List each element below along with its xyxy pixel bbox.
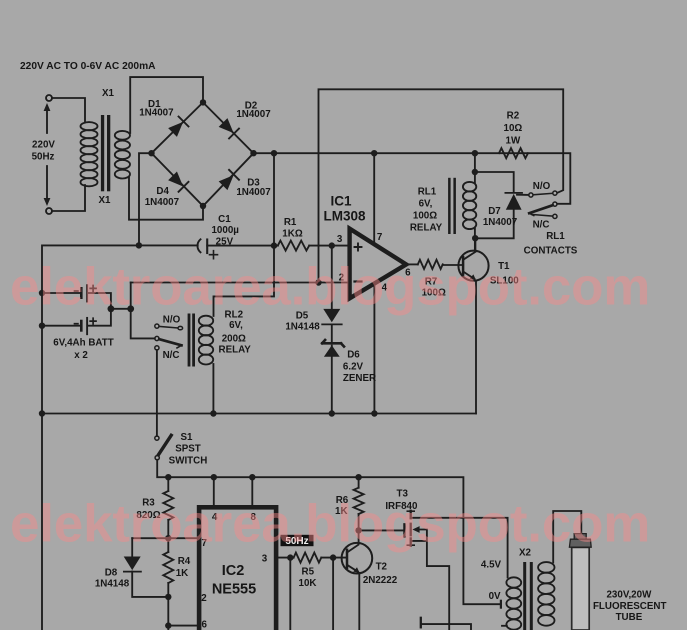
relay RL1 core xyxy=(448,178,456,234)
mains terminal top xyxy=(46,95,52,101)
svg-text:6V,: 6V, xyxy=(229,320,243,331)
svg-text:N/C: N/C xyxy=(533,219,550,230)
relay RL2 core xyxy=(188,314,195,367)
svg-text:N/C: N/C xyxy=(163,350,180,361)
relay RL1 feed riser xyxy=(474,153,476,183)
svg-text:R2: R2 xyxy=(507,111,520,122)
wire N/C relay RL2 down to S1 xyxy=(156,350,158,436)
wire R6 node to T2 collector xyxy=(358,530,360,543)
svg-text:R1: R1 xyxy=(284,217,297,228)
battery B1 wires xyxy=(42,293,111,309)
T1 emitter wire xyxy=(475,281,477,414)
diode D1 xyxy=(168,117,189,138)
0V tap tick xyxy=(500,601,502,608)
negative rail wire xyxy=(42,245,198,630)
wire D7 cathode to N/O contact xyxy=(517,194,529,196)
wire mains bottom to primary xyxy=(52,185,85,211)
transformer X2 primary winding xyxy=(506,577,521,629)
wire mains top to primary xyxy=(52,98,85,123)
svg-text:x 2: x 2 xyxy=(74,350,88,361)
svg-text:6.2V: 6.2V xyxy=(343,362,364,373)
relay RL1 contact N/C xyxy=(553,214,557,218)
svg-text:1N4007: 1N4007 xyxy=(236,109,271,120)
wire bridge left node to negative rail xyxy=(139,153,152,245)
svg-text:1N4007: 1N4007 xyxy=(145,197,180,208)
svg-text:1000µ: 1000µ xyxy=(211,225,239,236)
svg-text:LM308: LM308 xyxy=(323,209,366,224)
pin 7 wire of 555 xyxy=(132,537,197,539)
mains terminal bottom xyxy=(46,208,52,214)
svg-text:0V: 0V xyxy=(489,591,501,602)
wire RL1 coil bottom to T1 collector node xyxy=(474,229,476,251)
transformer X1 secondary winding xyxy=(115,131,130,179)
V+ supply rail to 555 xyxy=(157,460,500,604)
wire below pin3 node xyxy=(289,558,291,630)
capacitor C1 xyxy=(197,239,217,258)
svg-text:2N2222: 2N2222 xyxy=(363,575,398,586)
svg-text:C1: C1 xyxy=(218,214,231,225)
wire +V node down to RL2 coil xyxy=(214,246,275,316)
svg-text:D4: D4 xyxy=(156,186,169,197)
wire secondary top to bridge top node xyxy=(130,77,203,133)
resistor R2 xyxy=(499,148,528,158)
diode D8 xyxy=(131,538,133,556)
svg-text:3: 3 xyxy=(337,234,343,245)
220V 50Hz arrows xyxy=(32,103,56,206)
svg-text:220V AC TO 0-6V AC 200mA: 220V AC TO 0-6V AC 200mA xyxy=(20,61,156,72)
bridge diamond wires xyxy=(152,102,254,206)
wire secondary bottom to bridge bottom node xyxy=(129,178,203,220)
wire pin2 junction down to pin6 xyxy=(168,597,197,630)
svg-text:S1: S1 xyxy=(181,432,194,443)
pin 7 wire xyxy=(373,153,375,244)
svg-text:10K: 10K xyxy=(299,578,317,589)
MOSFET T3 xyxy=(404,511,507,630)
svg-text:10Ω: 10Ω xyxy=(504,123,523,134)
diode D5 xyxy=(331,246,333,309)
svg-text:ZENER: ZENER xyxy=(343,373,376,384)
svg-text:T2: T2 xyxy=(376,562,388,573)
svg-text:1KΩ: 1KΩ xyxy=(282,228,303,239)
svg-text:R4: R4 xyxy=(178,556,191,567)
svg-text:230V,20W: 230V,20W xyxy=(606,590,652,601)
output pin 6 wire xyxy=(406,263,418,265)
svg-text:200Ω: 200Ω xyxy=(222,333,246,344)
pin 4 wire xyxy=(373,285,375,413)
relay RL2 coil xyxy=(199,316,213,365)
relay RL1 coil xyxy=(463,182,476,229)
svg-text:7: 7 xyxy=(377,232,383,243)
riser bridge+ down to C1/R1 node xyxy=(273,153,275,245)
capacitor plate cut off at bottom xyxy=(420,618,422,628)
transformer X2 core xyxy=(523,562,533,630)
svg-text:X1: X1 xyxy=(99,195,112,206)
svg-text:IC1: IC1 xyxy=(330,194,352,209)
transformer X1 core xyxy=(101,115,110,191)
resistor R7 xyxy=(418,260,443,269)
top rail from op-amp pin2 to N/O xyxy=(319,89,564,282)
diode D7 xyxy=(475,210,513,239)
T2 emitter wire xyxy=(358,573,360,630)
wire below base node xyxy=(332,558,334,630)
svg-text:D6: D6 xyxy=(347,350,360,361)
svg-text:D8: D8 xyxy=(105,568,118,579)
wire X2 secondary to tube xyxy=(553,511,581,563)
pin 8 lead xyxy=(251,477,253,505)
transformer X1 primary winding xyxy=(81,122,98,186)
svg-text:50Hz: 50Hz xyxy=(32,152,55,163)
op-amp U1 IC1 triangle xyxy=(350,229,407,299)
svg-text:N/O: N/O xyxy=(533,181,551,192)
diode D3 xyxy=(218,170,239,191)
svg-text:220V: 220V xyxy=(32,140,55,151)
wire R1 to op-amp pin3 xyxy=(309,245,349,247)
resistor R6 xyxy=(358,477,360,488)
wire RL2 coil bottom to ground rail xyxy=(212,364,214,414)
relay RL2 contact N/C xyxy=(155,346,159,350)
svg-text:elektroarea.blogspot.com: elektroarea.blogspot.com xyxy=(10,495,650,554)
svg-text:1W: 1W xyxy=(506,136,521,147)
ground rail xyxy=(42,413,476,415)
fluorescent tube xyxy=(569,534,591,630)
main positive rail xyxy=(254,153,571,204)
switch S1 xyxy=(155,436,159,440)
wire R5 to T2 base xyxy=(321,557,347,559)
svg-text:SWITCH: SWITCH xyxy=(169,456,208,467)
pin 3 wire of 555 xyxy=(278,557,293,559)
X2 primary bottom stub xyxy=(502,625,507,627)
50Hz badge xyxy=(281,535,314,546)
wire R7 to T1 base xyxy=(443,264,463,266)
relay RL2 contacts N/O xyxy=(155,324,159,328)
transistor T1 xyxy=(458,238,488,281)
wire battery to RL2 pole xyxy=(131,309,155,339)
resistor R3 xyxy=(167,477,169,491)
svg-text:D7: D7 xyxy=(488,206,501,217)
svg-text:1N4007: 1N4007 xyxy=(139,108,174,119)
relay RL2 pole and arm xyxy=(155,336,159,340)
transistor T2 xyxy=(342,543,373,574)
svg-text:3: 3 xyxy=(262,554,268,565)
svg-text:6: 6 xyxy=(201,620,207,630)
svg-text:6V,: 6V, xyxy=(419,199,433,210)
svg-text:RL1: RL1 xyxy=(418,187,437,198)
battery B1 plates xyxy=(75,285,97,301)
relay RL1 pole and arm xyxy=(553,202,557,206)
svg-text:1N4007: 1N4007 xyxy=(236,187,271,198)
svg-text:1N4148: 1N4148 xyxy=(285,322,320,333)
svg-text:IC2: IC2 xyxy=(222,563,245,579)
svg-text:X1: X1 xyxy=(102,88,115,99)
relay RL1 contacts N/O xyxy=(529,193,533,197)
svg-text:SPST: SPST xyxy=(175,444,201,455)
wire C1 to R1 xyxy=(207,245,278,247)
svg-text:FLUORESCENT: FLUORESCENT xyxy=(593,601,666,612)
op-amp plus minus xyxy=(355,244,362,251)
svg-text:RELAY: RELAY xyxy=(410,223,443,234)
svg-text:elektroarea.blogspot.com: elektroarea.blogspot.com xyxy=(10,258,650,317)
wire RL1 top to D7 xyxy=(475,172,514,192)
pin 4 lead xyxy=(213,477,215,505)
resistor R1 xyxy=(278,241,309,251)
battery positive riser xyxy=(130,283,132,309)
svg-text:RELAY: RELAY xyxy=(219,345,252,356)
op-amp pin2 rail xyxy=(131,282,349,284)
svg-text:RL1: RL1 xyxy=(546,231,565,242)
svg-text:4.5V: 4.5V xyxy=(481,559,502,570)
zener D6 xyxy=(331,324,333,413)
battery B2 plates xyxy=(75,318,97,334)
IC2 NE555 box xyxy=(199,507,276,630)
svg-text:1K: 1K xyxy=(176,568,189,579)
wire R6 to T3 gate xyxy=(359,529,404,531)
svg-text:100Ω: 100Ω xyxy=(413,211,437,222)
svg-text:TUBE: TUBE xyxy=(616,612,643,623)
svg-text:1N4148: 1N4148 xyxy=(95,579,130,590)
resistor R4 xyxy=(167,538,169,552)
svg-text:NE555: NE555 xyxy=(212,582,256,598)
svg-text:2: 2 xyxy=(201,593,207,604)
diode D2 xyxy=(218,118,239,139)
transformer X2 secondary winding xyxy=(538,562,554,626)
diode D4 xyxy=(168,171,189,192)
svg-text:1N4007: 1N4007 xyxy=(483,217,518,228)
battery B2 wires xyxy=(42,309,111,326)
svg-text:R5: R5 xyxy=(302,566,315,577)
svg-text:CONTACTS: CONTACTS xyxy=(524,246,578,257)
resistor R5 xyxy=(294,553,322,563)
svg-text:6V,4Ah BATT: 6V,4Ah BATT xyxy=(53,338,113,349)
wire battery junction xyxy=(111,308,131,310)
